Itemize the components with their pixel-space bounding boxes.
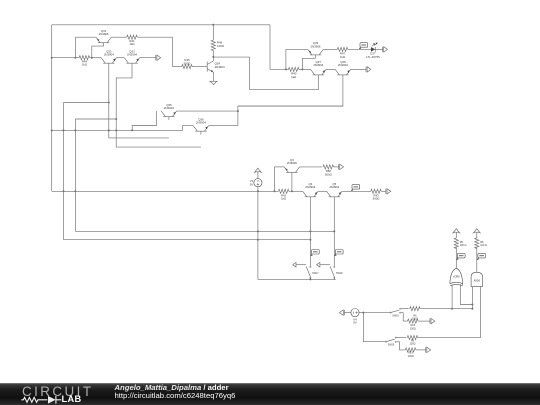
svg-text:5V: 5V (353, 321, 357, 325)
svg-text:1kΩ: 1kΩ (129, 42, 134, 46)
svg-text:2N3904: 2N3904 (313, 63, 323, 67)
svg-text:100 Ω: 100 Ω (460, 244, 467, 247)
svg-text:LTL-30755: LTL-30755 (366, 55, 380, 59)
svg-text:2N3904: 2N3904 (164, 106, 174, 110)
svg-text:100Ω: 100Ω (408, 355, 414, 358)
svg-text:2N3904: 2N3904 (104, 53, 114, 57)
svg-text:AND6: AND6 (474, 279, 481, 282)
svg-text:2N3904: 2N3904 (338, 63, 348, 67)
svg-text:1kΩ: 1kΩ (291, 75, 296, 79)
svg-text:2N3904: 2N3904 (305, 185, 315, 189)
svg-text:500Ω: 500Ω (325, 172, 332, 176)
svg-text:2N3906: 2N3906 (287, 161, 297, 165)
svg-text:1kΩ: 1kΩ (281, 197, 286, 201)
svg-text:100Ω: 100Ω (409, 343, 415, 346)
svg-text:5V: 5V (250, 182, 254, 186)
svg-text:500Ω: 500Ω (184, 61, 191, 65)
svg-text:SW17: SW17 (312, 272, 319, 275)
svg-text:2N3906: 2N3906 (99, 32, 109, 36)
svg-text:1kΩ: 1kΩ (340, 55, 345, 59)
svg-text:SW19: SW19 (392, 314, 399, 317)
svg-text:100Ω: 100Ω (412, 318, 418, 321)
svg-text:XOR8: XOR8 (453, 276, 460, 279)
svg-text:100Ω: 100Ω (410, 327, 416, 330)
svg-text:500Ω: 500Ω (373, 197, 380, 201)
svg-text:2N3904: 2N3904 (196, 121, 206, 125)
svg-text:SW20: SW20 (388, 343, 395, 346)
svg-text:2N3904: 2N3904 (127, 53, 137, 57)
svg-text:1kΩ: 1kΩ (82, 63, 87, 67)
svg-text:100 Ω: 100 Ω (480, 244, 487, 247)
svg-text:2N3904: 2N3904 (215, 65, 225, 69)
svg-text:SW18: SW18 (336, 272, 343, 275)
svg-text:2N3904: 2N3904 (329, 185, 339, 189)
svg-text:100Ω: 100Ω (217, 44, 224, 48)
svg-text:2N3906: 2N3906 (311, 44, 321, 48)
